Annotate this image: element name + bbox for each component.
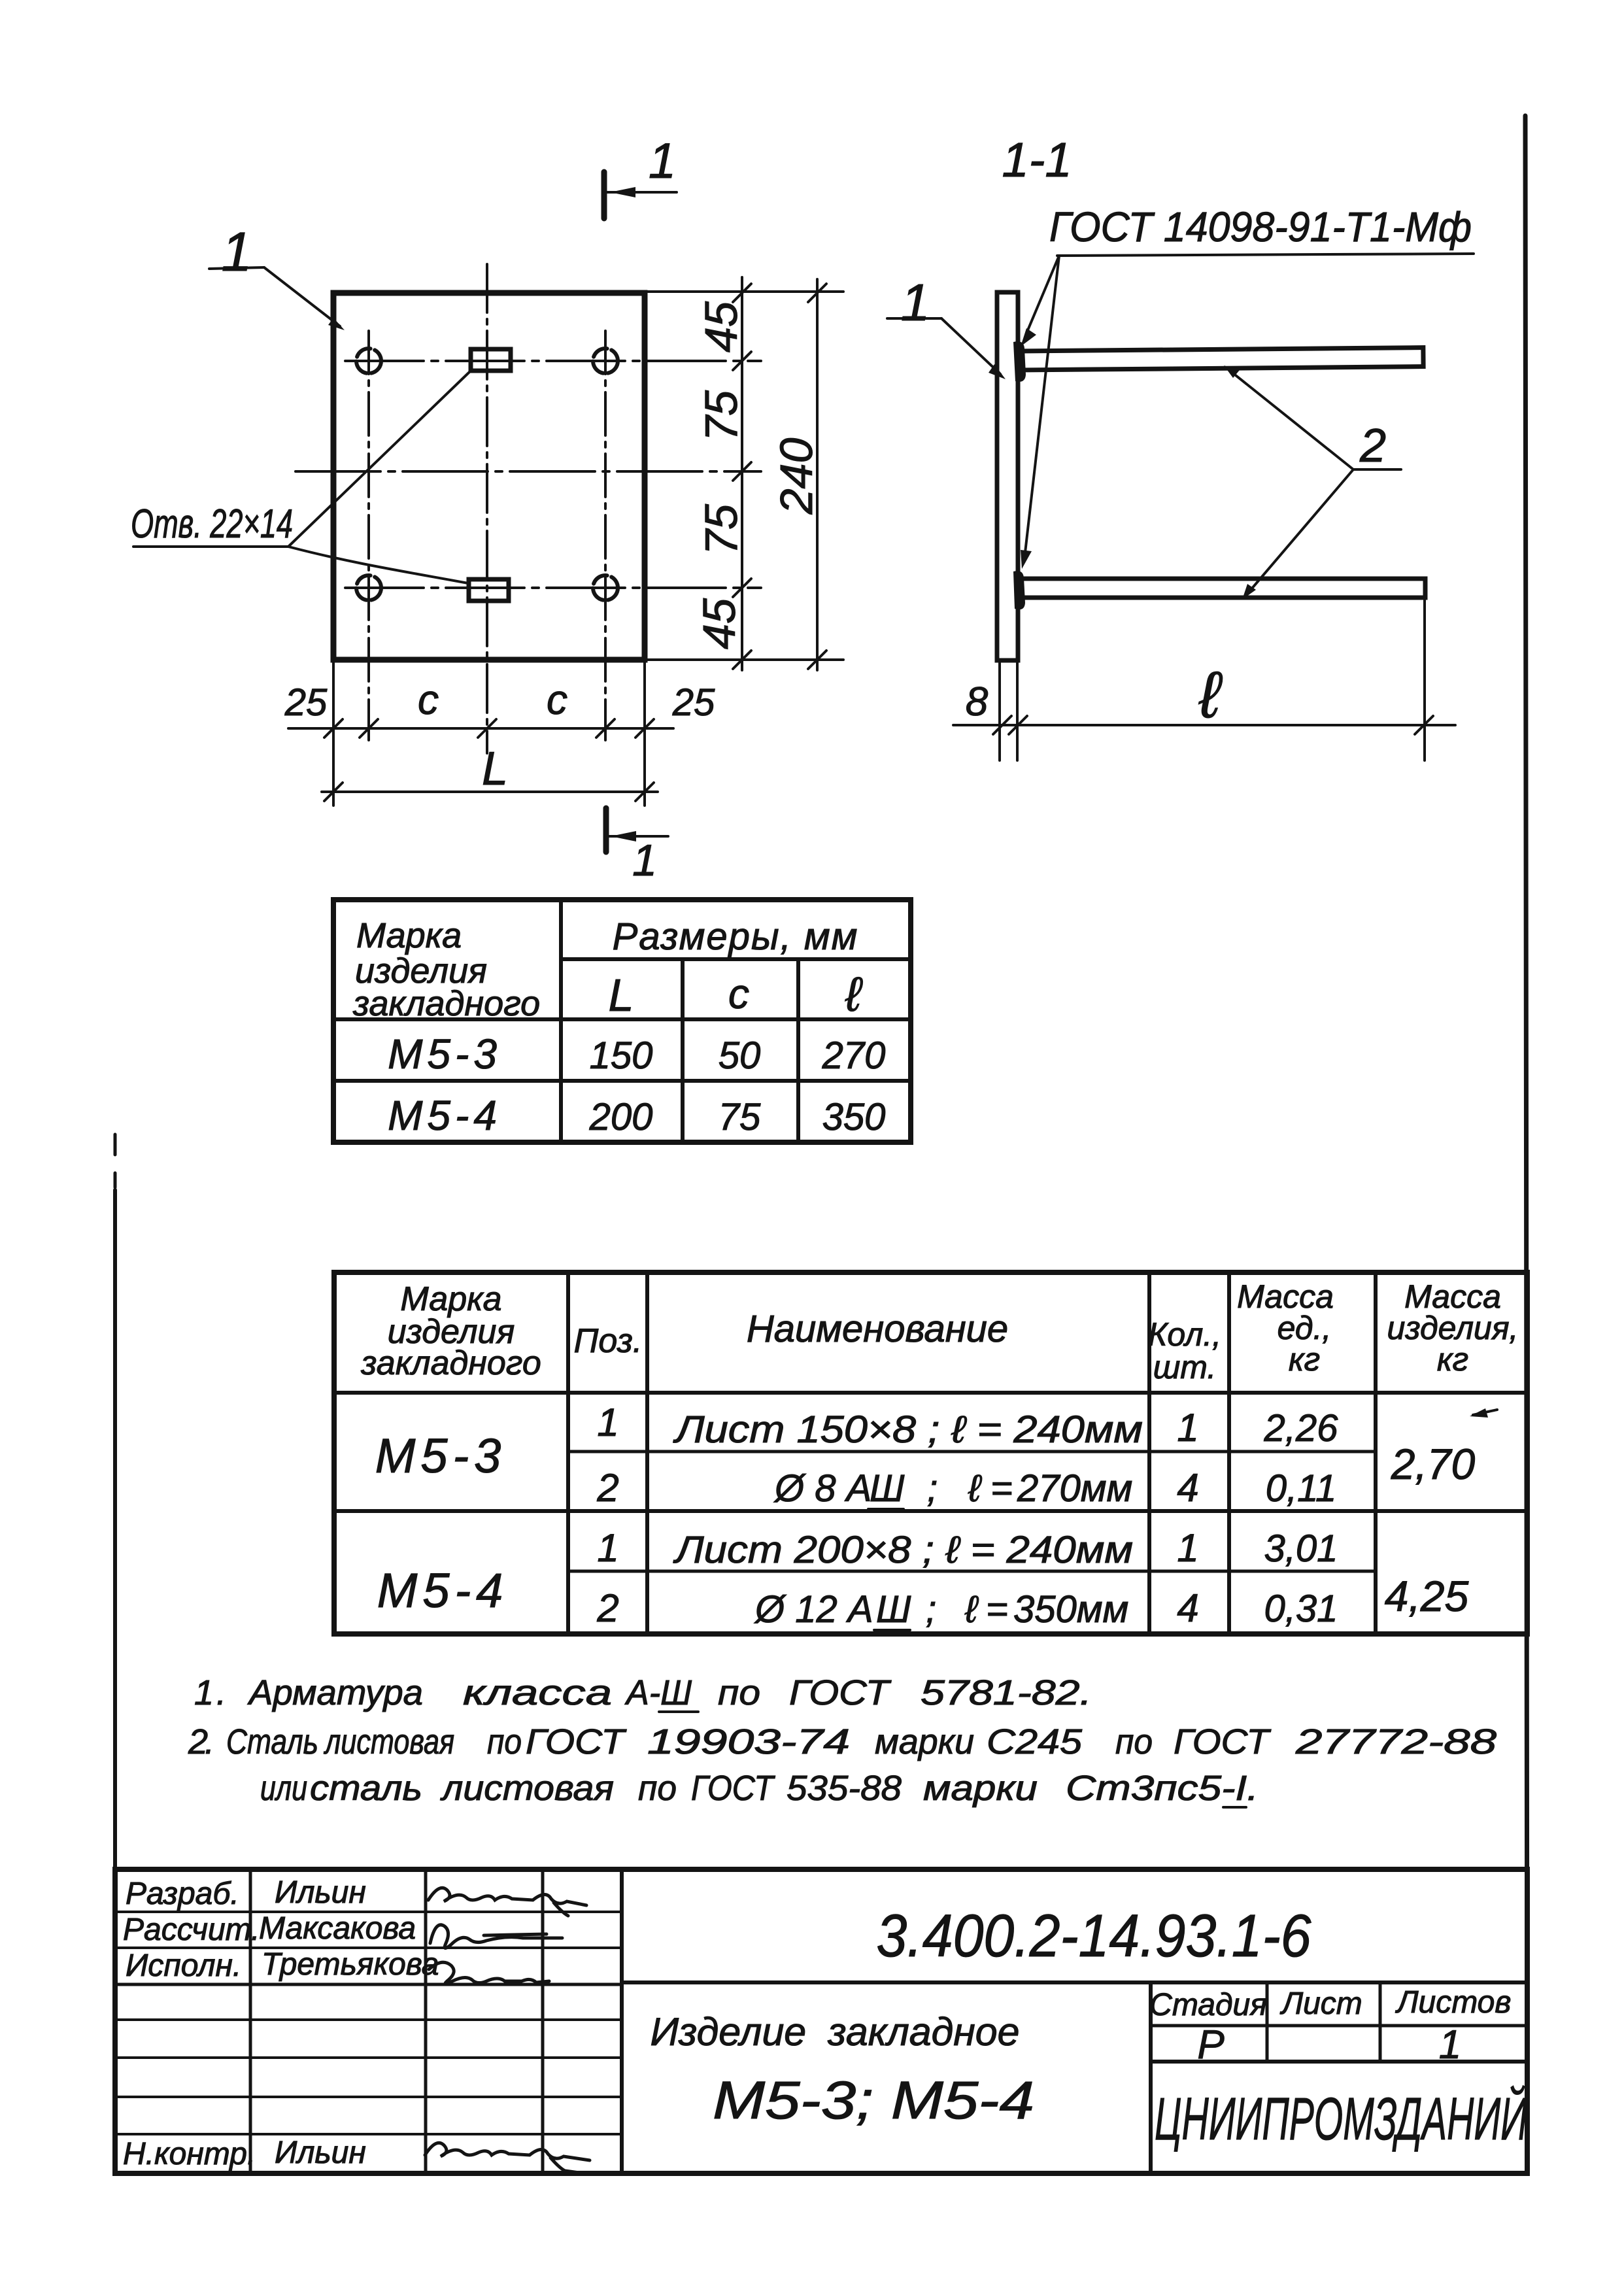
dim text 75 lower <box>696 503 747 555</box>
titleblock row Nkontr <box>123 2135 366 2171</box>
svg-text:кг: кг <box>1437 1341 1468 1378</box>
plan view: plate outline pos.1 <box>333 293 645 660</box>
section extension line bar end <box>1423 599 1426 760</box>
svg-text:Н.контр.: Н.контр. <box>123 2137 256 2171</box>
stage header Stadiya <box>1149 1988 1267 2022</box>
spec header Kol sht <box>1148 1316 1221 1385</box>
section extension line plate right <box>1016 663 1019 760</box>
svg-text:Максакова: Максакова <box>259 1911 416 1946</box>
sheet frame: left border dash 2 <box>114 1173 117 1187</box>
section line 1-1 top flag <box>604 133 677 218</box>
svg-text:М5-4: М5-4 <box>388 1092 501 1139</box>
svg-text:Ильин: Ильин <box>275 2135 366 2170</box>
callout 1 plate (plan) <box>209 221 345 330</box>
svg-text:Ø 8 АШ;ℓ=270мм: Ø 8 АШ;ℓ=270мм <box>773 1467 1132 1510</box>
svg-text:1: 1 <box>1177 1526 1198 1570</box>
svg-text:2: 2 <box>1359 420 1386 472</box>
section line 1-1 bottom flag <box>606 808 668 885</box>
extension line plate bottom edge <box>647 658 843 661</box>
svg-text:L: L <box>482 743 508 795</box>
svg-text:2,26: 2,26 <box>1264 1407 1339 1450</box>
svg-text:Лист 150×8 ; ℓ = 240мм: Лист 150×8 ; ℓ = 240мм <box>673 1408 1143 1451</box>
svg-text:ЦНИИПРОМЗДАНИЙ: ЦНИИПРОМЗДАНИЙ <box>1155 2084 1527 2152</box>
svg-text:1: 1 <box>1177 1406 1198 1450</box>
svg-text:илистальлистоваяпоГОСТ535-88ма: илистальлистоваяпоГОСТ535-88маркиСт3пс5-… <box>260 1769 1259 1808</box>
titleblock row Razrab <box>126 1875 366 1911</box>
svg-text:Ильин: Ильин <box>275 1875 366 1910</box>
callout 1 plate (section) <box>887 273 1006 379</box>
svg-text:45: 45 <box>694 598 745 649</box>
label Otv. 22x14 <box>131 371 470 583</box>
svg-text:4: 4 <box>1177 1586 1198 1630</box>
svg-text:25: 25 <box>284 681 328 724</box>
sizes table frame <box>333 900 911 1142</box>
spec header Marka <box>360 1280 541 1382</box>
signature Ilyin 2 <box>425 2143 590 2173</box>
svg-text:2: 2 <box>596 1586 618 1630</box>
svg-text:Наименование: Наименование <box>747 1308 1008 1350</box>
dim text c left <box>418 676 439 723</box>
svg-text:шт.: шт. <box>1153 1349 1216 1385</box>
sizes table header l <box>845 967 863 1021</box>
svg-text:Лист: Лист <box>1279 1986 1362 2021</box>
svg-text:200: 200 <box>589 1096 653 1138</box>
svg-text:Рассчит.: Рассчит. <box>123 1912 260 1947</box>
svg-text:Р: Р <box>1197 2022 1224 2067</box>
organization TsNIIPROMZDANIY <box>1155 2084 1527 2152</box>
svg-text:c: c <box>547 676 567 723</box>
svg-text:Третьякова: Третьякова <box>262 1947 439 1982</box>
dimension 240 line <box>808 279 826 670</box>
dim text c right <box>547 676 567 723</box>
signature Ilyin 1 <box>428 1888 586 1916</box>
svg-text:75: 75 <box>719 1096 761 1138</box>
section: plate pos.1 side view <box>997 292 1018 660</box>
svg-text:ℓ: ℓ <box>845 967 863 1021</box>
sizes table row M5-3 <box>388 1030 885 1078</box>
sizes table row M5-4 <box>388 1092 885 1139</box>
svg-text:1: 1 <box>222 221 252 282</box>
dimension chain 45 75 75 45 line <box>733 277 751 670</box>
section extension line plate left <box>998 663 1001 760</box>
plan view: left holes axis vertical <box>367 331 370 740</box>
spec row2 <box>596 1466 1336 1510</box>
svg-text:L: L <box>609 970 634 1021</box>
svg-text:8: 8 <box>966 679 989 724</box>
svg-text:М5-3: М5-3 <box>388 1030 501 1078</box>
svg-text:2,70: 2,70 <box>1391 1440 1476 1488</box>
weld seam top <box>1013 341 1026 382</box>
dimension 25 c c 25 line <box>288 719 673 738</box>
plan view: top row axis horizontal <box>345 360 761 362</box>
svg-text:1: 1 <box>597 1526 618 1570</box>
spec header Massa ed <box>1237 1278 1334 1378</box>
spec M5-3 total mass <box>1391 1408 1497 1488</box>
section view title 1-1 <box>1002 133 1072 187</box>
plan view: bottom row axis horizontal <box>345 586 761 589</box>
dim text 45 top <box>696 301 747 352</box>
note 2 line 2 <box>260 1769 1259 1808</box>
svg-text:3.400.2-14.93.1-6: 3.400.2-14.93.1-6 <box>877 1903 1312 1969</box>
document number 3.400.2-14.93.1-6 <box>877 1903 1312 1969</box>
dim text l script <box>1198 658 1223 732</box>
sizes table header Razmery <box>613 915 859 958</box>
svg-text:М5-4: М5-4 <box>377 1563 509 1618</box>
extension line plate right edge down <box>643 662 646 806</box>
title M5-3 M5-4 <box>713 2071 1034 2130</box>
svg-text:1.АрматураклассаА-ШпоГОСТ5781-: 1.АрматураклассаА-ШпоГОСТ5781-82. <box>194 1673 1092 1712</box>
dim text L <box>482 743 508 795</box>
svg-text:0,11: 0,11 <box>1266 1467 1337 1510</box>
titleblock row Ispoln <box>126 1947 439 1983</box>
spec header Naimenovanie <box>747 1308 1008 1350</box>
spec M5-4 total mass <box>1385 1572 1469 1620</box>
svg-text:Кол.,: Кол., <box>1148 1316 1221 1353</box>
svg-text:1-1: 1-1 <box>1002 133 1072 187</box>
svg-text:закладного: закладного <box>360 1344 541 1382</box>
signature Tretyakova <box>429 1962 549 1983</box>
titleblock row Rasschit <box>123 1911 416 1947</box>
sizes table header Marka <box>352 916 540 1023</box>
svg-text:3,01: 3,01 <box>1264 1527 1338 1570</box>
spec M5-3 mark <box>375 1429 507 1483</box>
svg-text:закладного: закладного <box>352 984 540 1023</box>
sheet frame: right border <box>1525 116 1527 2173</box>
svg-text:М5-3; М5-4: М5-3; М5-4 <box>713 2071 1034 2130</box>
spec header Massa izdeliya <box>1387 1278 1519 1378</box>
svg-text:75: 75 <box>696 503 747 555</box>
spec row3 <box>597 1526 1338 1571</box>
svg-text:2: 2 <box>596 1466 618 1510</box>
svg-text:c: c <box>418 676 439 723</box>
svg-text:240: 240 <box>771 438 822 515</box>
plan view: round hole bottom-left <box>356 575 381 600</box>
dim text 8 <box>966 679 989 724</box>
svg-text:4,25: 4,25 <box>1385 1572 1469 1620</box>
spec M5-4 mark <box>377 1563 509 1618</box>
svg-text:0,31: 0,31 <box>1264 1588 1338 1630</box>
svg-text:150: 150 <box>590 1034 653 1077</box>
plan view: round hole top-right <box>593 348 618 373</box>
sizes table header L <box>609 970 634 1021</box>
svg-text:Стадия: Стадия <box>1149 1988 1267 2022</box>
svg-text:1: 1 <box>632 836 657 885</box>
svg-text:2.СтальлистоваяпоГОСТ19903-74м: 2.СтальлистоваяпоГОСТ19903-74маркиС245по… <box>188 1722 1497 1761</box>
svg-text:Ø 12 АШ;ℓ=350мм: Ø 12 АШ;ℓ=350мм <box>754 1588 1128 1631</box>
svg-text:Листов: Листов <box>1395 1985 1512 2020</box>
dim text 240 <box>771 438 822 515</box>
dim text 75 upper <box>696 390 747 441</box>
note 2 <box>188 1722 1497 1761</box>
dim text 25 right <box>672 681 715 724</box>
svg-text:Размеры, мм: Размеры, мм <box>613 915 859 958</box>
spec row4 <box>596 1586 1338 1631</box>
svg-text:М5-3: М5-3 <box>375 1429 507 1483</box>
stage header Listov <box>1395 1985 1512 2020</box>
svg-text:1: 1 <box>1439 2022 1461 2067</box>
plan view: round hole bottom-right <box>593 575 618 600</box>
plan view: right holes axis vertical <box>604 331 607 740</box>
listov value 1 <box>1439 2022 1461 2067</box>
dim text 25 left <box>284 681 328 724</box>
svg-text:Отв. 22×14: Отв. 22×14 <box>131 501 293 547</box>
svg-text:кг: кг <box>1289 1341 1320 1378</box>
svg-text:Изделие закладное: Изделие закладное <box>651 2010 1020 2054</box>
plan view: round hole top-left <box>356 348 381 373</box>
dim text 45 bottom <box>694 598 745 649</box>
spec header Poz <box>574 1322 643 1360</box>
svg-text:350: 350 <box>822 1096 886 1138</box>
extension line plate left edge down <box>332 662 335 806</box>
svg-text:ГОСТ 14098-91-Т1-Мф: ГОСТ 14098-91-Т1-Мф <box>1049 203 1472 250</box>
svg-text:1: 1 <box>901 273 930 331</box>
svg-text:Разраб.: Разраб. <box>126 1877 239 1911</box>
svg-text:Исполн.: Исполн. <box>126 1948 241 1983</box>
svg-text:Марка: Марка <box>356 916 462 955</box>
sizes table header c <box>728 970 749 1017</box>
signature Maksakova <box>430 1925 562 1948</box>
svg-text:ℓ: ℓ <box>1198 658 1223 732</box>
svg-text:270: 270 <box>822 1034 886 1077</box>
plan view: slot hole 22x14 bottom <box>469 579 509 601</box>
section: anchor bar pos.2 top <box>1018 348 1423 370</box>
title block frame <box>115 1869 1527 2173</box>
weld label GOST 14098-91-T1-Mf <box>1021 203 1474 569</box>
svg-text:Поз.: Поз. <box>574 1322 643 1360</box>
plan view: centre axis vertical <box>486 264 488 753</box>
sheet frame: left border dash 1 <box>114 1134 117 1155</box>
dimension L line <box>322 783 658 801</box>
svg-text:45: 45 <box>696 301 747 352</box>
stage header List <box>1279 1986 1362 2021</box>
svg-text:75: 75 <box>696 390 747 441</box>
section dimension line 8 and l <box>953 716 1455 734</box>
callout 2 bars <box>1224 365 1401 600</box>
svg-text:Лист 200×8 ; ℓ = 240мм: Лист 200×8 ; ℓ = 240мм <box>673 1529 1133 1571</box>
extension line plate top edge <box>647 290 843 293</box>
svg-text:1: 1 <box>597 1401 618 1444</box>
svg-text:c: c <box>728 970 749 1017</box>
svg-text:1: 1 <box>649 133 676 189</box>
plan view: slot hole 22x14 top <box>471 349 511 371</box>
section: anchor bar pos.2 bottom <box>1018 579 1425 598</box>
spec row1 <box>597 1401 1338 1451</box>
svg-text:4: 4 <box>1177 1466 1198 1510</box>
weld seam bottom <box>1013 571 1025 609</box>
title Izdelie zakladnoe <box>651 2010 1020 2054</box>
sheet frame: left border <box>113 1190 117 2173</box>
note 1 <box>194 1673 1092 1712</box>
svg-text:25: 25 <box>672 681 715 724</box>
plan view: centre axis horizontal <box>296 470 761 473</box>
spec table frame <box>334 1272 1527 1634</box>
svg-text:50: 50 <box>719 1034 761 1077</box>
stage value P <box>1197 2022 1224 2067</box>
